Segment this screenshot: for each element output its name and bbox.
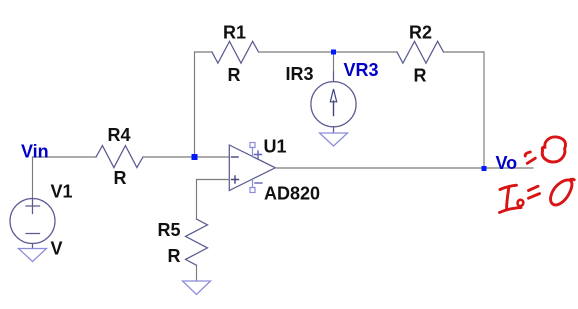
red annotation equals (bottom) [529,186,539,190]
op-amp inverting minus mark [232,156,239,158]
node junction at feedback/R4 [192,154,198,160]
wire R2 right corner down to Vo junction [444,52,485,169]
IR3 arrow [333,101,335,116]
wire IR3 top stub [333,52,335,72]
resistor R4 [96,146,143,168]
red annotation zero (top) [542,137,565,162]
red annotation zero (bottom) [551,179,575,205]
svg-text:V: V [51,239,63,259]
op-amp bottom power minus mark [255,182,262,184]
ground of R5 [183,281,211,295]
op-amp non-inverting plus mark [232,176,239,183]
V1 bottom stub [32,244,34,249]
wire R1 to top junction [259,51,334,53]
ground of V1 [19,249,47,262]
svg-text:R5: R5 [158,220,181,240]
svg-text:R: R [228,65,241,85]
op-amp U1 triangle [229,145,275,191]
svg-text:Vin: Vin [21,142,49,162]
V1 minus mark [26,233,40,235]
current source IR3 pin [333,72,335,82]
svg-text:R: R [114,168,127,188]
resistor R2 [397,41,444,63]
wire top junction to R2 [334,51,398,53]
svg-text:U1: U1 [264,137,287,157]
svg-text:V1: V1 [51,182,73,202]
svg-text:R4: R4 [108,125,131,145]
wire plus input and down to R5 [197,180,230,220]
voltage source V1 circle [10,199,55,244]
svg-text:AD820: AD820 [264,184,320,204]
op-amp top power pin square [250,143,255,148]
svg-text:Vo: Vo [496,153,518,173]
resistor R1 [212,41,259,63]
svg-text:R: R [168,246,181,266]
wire R5 to ground [196,265,198,281]
red annotation o subscript (bottom) [518,200,524,206]
IR3 bottom stub [333,127,335,133]
svg-text:IR3: IR3 [286,64,314,84]
wire Vin horizontal [33,156,97,158]
svg-text:VR3: VR3 [344,60,379,80]
svg-text:R1: R1 [223,23,246,43]
op-amp top power stub [252,148,254,158]
svg-text:R2: R2 [409,23,432,43]
resistor R5 [186,219,208,265]
red annotation I (bottom) [500,185,517,189]
node junction Vo [482,166,487,171]
wire R4 to op-amp minus input [143,156,229,158]
wire feedback left vertical [194,52,196,157]
V1 plus mark [26,199,40,214]
current source IR3 circle [311,82,356,127]
ground of IR3 [320,133,348,146]
op-amp bottom power stub [252,180,254,188]
wire op-amp output to Vo [275,167,533,169]
wire top-left horizontal to R1 [195,51,213,53]
svg-text:R: R [414,66,427,86]
wire Vin vertical to V1 [32,157,34,199]
node junction top (IR3) [331,50,336,55]
red annotation equals (top) [525,152,530,156]
op-amp bottom power pin square [250,188,255,193]
op-amp top power plus mark [255,151,262,158]
